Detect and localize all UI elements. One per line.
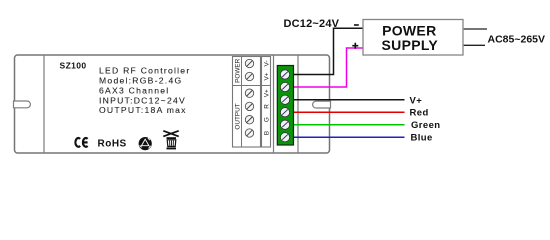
- svg-text:OUTPUT: OUTPUT: [235, 103, 242, 129]
- svg-text:6AX3 Channel: 6AX3 Channel: [99, 85, 169, 95]
- svg-text:RoHS: RoHS: [98, 139, 127, 150]
- svg-text:Model:RGB-2.4G: Model:RGB-2.4G: [99, 76, 182, 86]
- svg-text:G: G: [263, 117, 270, 122]
- svg-text:INPUT:DC12~24V: INPUT:DC12~24V: [99, 95, 186, 105]
- svg-text:Green: Green: [411, 120, 440, 131]
- svg-text:SZ100: SZ100: [60, 61, 87, 71]
- svg-text:V+: V+: [410, 95, 423, 106]
- svg-text:B: B: [263, 131, 270, 135]
- svg-text:Red: Red: [410, 107, 429, 118]
- svg-text:AC85~265V: AC85~265V: [488, 34, 546, 46]
- svg-text:POWER: POWER: [235, 58, 242, 83]
- svg-text:V+: V+: [263, 89, 270, 97]
- svg-text:SUPPLY: SUPPLY: [382, 37, 439, 53]
- svg-text:DC12~24V: DC12~24V: [284, 18, 340, 30]
- svg-text:V+: V+: [263, 72, 270, 80]
- svg-text:OUTPUT:18A max: OUTPUT:18A max: [99, 105, 187, 115]
- svg-text:Blue: Blue: [411, 133, 433, 144]
- svg-text:R: R: [263, 104, 270, 109]
- svg-text:V-: V-: [263, 60, 270, 66]
- svg-text:LED RF Controller: LED RF Controller: [99, 66, 190, 76]
